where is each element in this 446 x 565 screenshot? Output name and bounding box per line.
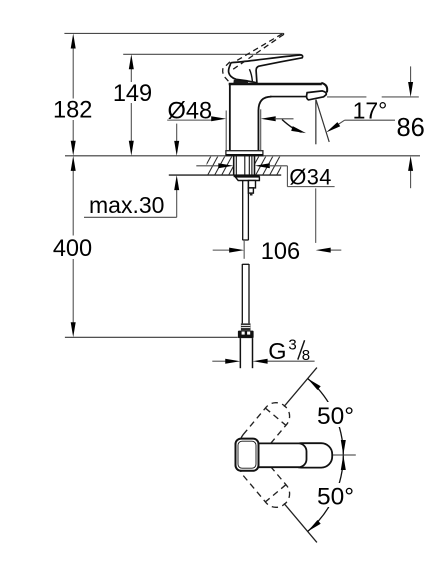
body left wall [229, 83, 231, 151]
svg-text:400: 400 [53, 236, 92, 262]
label 50 lower [314, 483, 356, 507]
Ø34 left-pointing arrow [255, 163, 270, 168]
svg-text:50°: 50° [317, 403, 354, 430]
lever base-neck joint line [249, 69, 252, 81]
arrow 149 up [129, 54, 134, 69]
50 deg construction line lower [284, 503, 317, 542]
dashed handle rotated up 50 [235, 397, 295, 461]
dimension 149 line [130, 68, 132, 83]
deck hatching left [201, 156, 288, 175]
supply pipe lower segment [242, 264, 249, 323]
deck top line [65, 155, 420, 157]
upper 50 arc [308, 379, 344, 456]
dimension 86 [327, 96, 366, 98]
lever cap (top view) [236, 439, 259, 471]
dimension G 3/8 [212, 360, 226, 362]
G3/8 connector nut [238, 331, 254, 339]
106 extension tick (pipe axis) [243, 241, 245, 259]
dashed handle rotated down 50 [235, 448, 295, 512]
svg-text:182: 182 [53, 98, 92, 124]
svg-text:86: 86 [397, 114, 425, 142]
spout underside [270, 96, 307, 98]
extension line 149 ref (closed lever tip) [123, 53, 300, 55]
extension line top (182 ref, raised lever tip) [64, 32, 283, 34]
body right wall with corner into spout underside [258, 97, 271, 151]
svg-text:G: G [268, 338, 286, 364]
svg-text:Ø34: Ø34 [289, 164, 331, 189]
deck bottom line [169, 174, 281, 176]
50 deg construction line upper [284, 368, 317, 407]
arrow 400 up [71, 156, 76, 171]
arrow 182 up [71, 34, 76, 49]
arrow 400 down [71, 322, 76, 337]
svg-text:8: 8 [302, 347, 310, 364]
svg-text:50°: 50° [317, 484, 354, 511]
arrow 149 down [129, 141, 134, 156]
label 50 upper [314, 402, 356, 427]
aerator [307, 91, 327, 100]
escutcheon base plate [226, 151, 263, 156]
svg-text:106: 106 [261, 239, 300, 265]
dimension 182 line [72, 47, 74, 99]
106 extension (spout outlet axis) [315, 188, 317, 243]
400 bottom reference line [65, 336, 238, 338]
Ø48 extension lines [225, 111, 227, 151]
hose clip steps [248, 181, 255, 188]
mounting nut [234, 175, 260, 177]
body top bold edge [229, 83, 322, 86]
lower 50 arc [308, 455, 344, 532]
lever handle solid [229, 55, 303, 83]
Ø48 right-pointing arrow [211, 116, 226, 121]
svg-text:3: 3 [288, 336, 296, 353]
supply pipe upper segment [243, 181, 249, 241]
Ø34 right-pointing arrow [218, 163, 233, 168]
max.30 upper arrow (down to deck top) [176, 124, 178, 143]
connection pipe bottom [240, 338, 252, 368]
spout right corner [321, 83, 327, 93]
handle shadow on body top [233, 80, 248, 84]
arrow 182 down [71, 141, 76, 156]
svg-text:max.30: max.30 [89, 192, 164, 218]
label Ø34 with bracket leader [196, 165, 219, 167]
svg-text:149: 149 [113, 81, 152, 107]
valve housing (top view) [290, 443, 332, 467]
dimension 106 [213, 249, 231, 251]
flow direction curved arrow [282, 120, 302, 133]
svg-text:17°: 17° [353, 97, 388, 123]
Ø48 left-pointing arrow [261, 116, 276, 121]
pipe thread section [241, 323, 251, 330]
lever handle dashed raised position [223, 33, 284, 81]
lever body (top view) [239, 443, 307, 467]
17 degree reference lines [315, 100, 317, 145]
dimension 400 line [72, 170, 74, 236]
max.30 lower arrow (up to deck bottom) [176, 189, 178, 218]
threaded shank below deck [234, 156, 255, 175]
centerline at valve end [333, 454, 356, 456]
